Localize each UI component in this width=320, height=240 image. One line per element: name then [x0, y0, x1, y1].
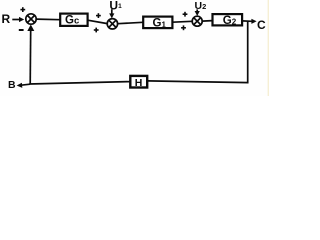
- svg-text:R: R: [2, 12, 11, 26]
- svg-text:C: C: [257, 18, 266, 32]
- wire S2 to block G1: [118, 22, 143, 23]
- plus sign upper at summer S2: [96, 13, 101, 18]
- wire R to summer S1: [12, 17, 24, 22]
- wire Gc to summer S2: [88, 20, 108, 23]
- svg-text:H: H: [135, 77, 143, 89]
- wire S3 to block G2: [202, 20, 212, 23]
- plus sign upper at summer S3: [183, 12, 188, 17]
- svg-text:U2: U2: [195, 0, 207, 12]
- wire U1 arrow into S2: [109, 9, 114, 18]
- summing junction S1: [26, 14, 36, 24]
- summing junction S2: [107, 19, 117, 29]
- block Gc: [60, 14, 87, 27]
- wire vertical feedback up to S1 with arrowhead: [27, 25, 34, 85]
- wire G2 to output C with arrowhead: [242, 19, 256, 24]
- wire takeoff down from output: [247, 21, 249, 83]
- wire G1 to summer S3: [172, 20, 192, 23]
- svg-text:B: B: [8, 79, 16, 91]
- plus sign lower at summer S2: [94, 28, 99, 33]
- block G1: [143, 17, 172, 30]
- svg-text:Gc: Gc: [65, 15, 79, 27]
- wire bottom left segment from H to corner: [29, 82, 130, 84]
- wire S1 to block Gc: [36, 18, 60, 21]
- wire bottom right segment to H: [147, 81, 248, 83]
- wire arrow to node B: [17, 83, 30, 88]
- summing junction S3: [192, 16, 202, 26]
- minus sign at summer S1 feedback input: [19, 29, 24, 31]
- block G2: [213, 14, 243, 27]
- plus sign at summer S1 input: [20, 7, 25, 12]
- plus sign lower at summer S3: [181, 25, 186, 30]
- paper edge tint: [268, 0, 269, 96]
- block H: [130, 76, 147, 89]
- wire U2 arrow into S3: [195, 9, 200, 16]
